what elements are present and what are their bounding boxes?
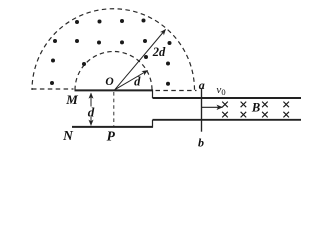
lower right plate [153,119,302,121]
gap arrow d between M and N (lower half) [90,117,92,126]
cross row2 col4 [283,112,289,118]
inner dashed boundary arc (radius d) [75,51,152,90]
gap arrow d between M and N (upper half) [90,93,92,106]
svg-text:d: d [88,105,95,120]
cross row2 col2 [241,112,247,118]
svg-text:B: B [251,101,260,115]
svg-text:2d: 2d [152,45,166,59]
plate M (upper left plate) [75,89,154,91]
velocity arrow v0 [202,106,223,108]
upper right plate [153,97,302,99]
svg-text:M: M [65,92,78,107]
step down of upper plate [152,90,154,98]
svg-text:O: O [105,76,113,88]
dashed vertical line O to P [113,92,115,126]
dashed diameter segment right [156,90,197,92]
svg-text:a: a [199,78,205,92]
radius arrow 2d [115,30,166,90]
cross row2 col1 [222,112,228,118]
radius arrow d [115,71,148,90]
vertical entrance line ab [201,89,203,132]
step up of lower plate [152,120,154,128]
cross row1 col2 [241,102,247,108]
outer dashed boundary arc (radius 2d) [32,9,195,90]
field dots (B out of page) in annulus [50,19,172,86]
cross row1 col3 [262,102,268,108]
svg-text:d: d [134,75,141,89]
svg-text:b: b [198,135,204,149]
svg-text:v0: v0 [216,84,225,97]
plate N (lower left plate) [72,126,153,128]
svg-text:P: P [107,128,116,143]
field crosses (B into page) in right channel [222,102,289,118]
dashed diameter segment left [32,88,74,90]
cross row1 col1 [222,102,228,108]
cross row1 col4 [283,102,289,108]
cross row2 col3 [262,112,268,118]
svg-text:N: N [62,128,74,143]
